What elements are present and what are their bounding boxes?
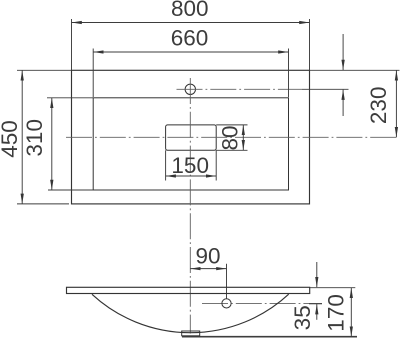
dim 150 line	[166, 175, 217, 177]
dim 800 line	[72, 22, 310, 24]
dim 80 line	[242, 125, 244, 150]
dim 660 extension right	[288, 49, 290, 98]
dim 310 extension top	[47, 97, 93, 99]
dim 450 extension top	[17, 69, 71, 71]
dim 660 line	[93, 51, 288, 53]
drain rectangle (top view)	[166, 125, 217, 150]
faucet offset dim upper leader	[342, 34, 344, 70]
basin inner rectangle (top view)	[93, 98, 288, 190]
faucet offset dim lower leader	[342, 90, 344, 116]
rim slab (front view)	[67, 287, 310, 293]
dim 310 extension bottom	[48, 189, 93, 191]
svg-text:310: 310	[22, 119, 47, 157]
overflow hole circle	[222, 299, 231, 308]
svg-text:90: 90	[195, 244, 220, 269]
svg-text:150: 150	[171, 153, 209, 178]
bottom extension line	[182, 336, 357, 338]
bowl arc (front view)	[92, 294, 289, 333]
dim 800 extension right	[309, 19, 311, 70]
svg-text:35: 35	[290, 305, 315, 330]
dim 660 extension left	[92, 49, 94, 98]
dim 230 line	[395, 70, 397, 137]
dim 90 line	[190, 268, 226, 270]
svg-text:800: 800	[171, 0, 209, 21]
svg-text:80: 80	[218, 125, 243, 150]
dim 230 extension top	[310, 69, 400, 71]
faucet centerline solid tick	[302, 88, 349, 90]
dim 90 extension right	[226, 264, 228, 299]
dim 310 line	[51, 98, 53, 190]
dim 170 line	[350, 288, 352, 337]
dim 150 extension right	[215, 150, 217, 180]
svg-text:450: 450	[0, 120, 22, 158]
faucet hole centerline	[177, 88, 303, 90]
dim 80 extension bottom	[216, 149, 247, 151]
basin outer rectangle (top view)	[72, 70, 310, 204]
dim 150 extension left	[165, 150, 167, 180]
overflow level tick	[309, 303, 322, 305]
vertical centerline	[189, 78, 191, 334]
faucet hole circle	[185, 84, 195, 94]
dim 80 extension top	[216, 124, 247, 126]
svg-text:660: 660	[171, 25, 209, 50]
waste outlet (front view)	[182, 331, 200, 336]
dim 35 lower leader	[316, 304, 318, 320]
svg-text:170: 170	[324, 294, 349, 332]
horizontal centerline (top view)	[66, 136, 397, 138]
dim 450 line	[21, 70, 23, 204]
svg-text:230: 230	[366, 87, 391, 125]
rim top extension line	[310, 287, 356, 289]
dim 450 extension bottom	[17, 203, 69, 205]
overflow hole centerline	[202, 302, 322, 304]
dim 35 upper leader	[316, 262, 318, 287]
dim 800 extension left	[71, 19, 73, 70]
